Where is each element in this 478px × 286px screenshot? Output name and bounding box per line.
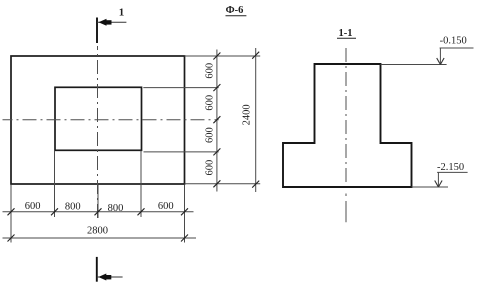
svg-text:-0.150: -0.150 [440,35,467,46]
svg-text:600: 600 [25,201,41,212]
svg-text:1: 1 [119,6,125,18]
svg-text:2400: 2400 [241,104,252,125]
svg-text:600: 600 [158,201,174,212]
svg-text:Ф-6: Ф-6 [226,5,244,16]
svg-text:600: 600 [205,63,216,79]
svg-text:600: 600 [205,95,216,111]
svg-text:800: 800 [65,201,81,212]
svg-text:-2.150: -2.150 [437,162,464,173]
svg-text:800: 800 [108,203,124,214]
svg-text:1-1: 1-1 [339,28,353,39]
svg-text:600: 600 [205,160,216,176]
svg-text:600: 600 [205,127,216,143]
svg-text:2800: 2800 [87,225,108,236]
